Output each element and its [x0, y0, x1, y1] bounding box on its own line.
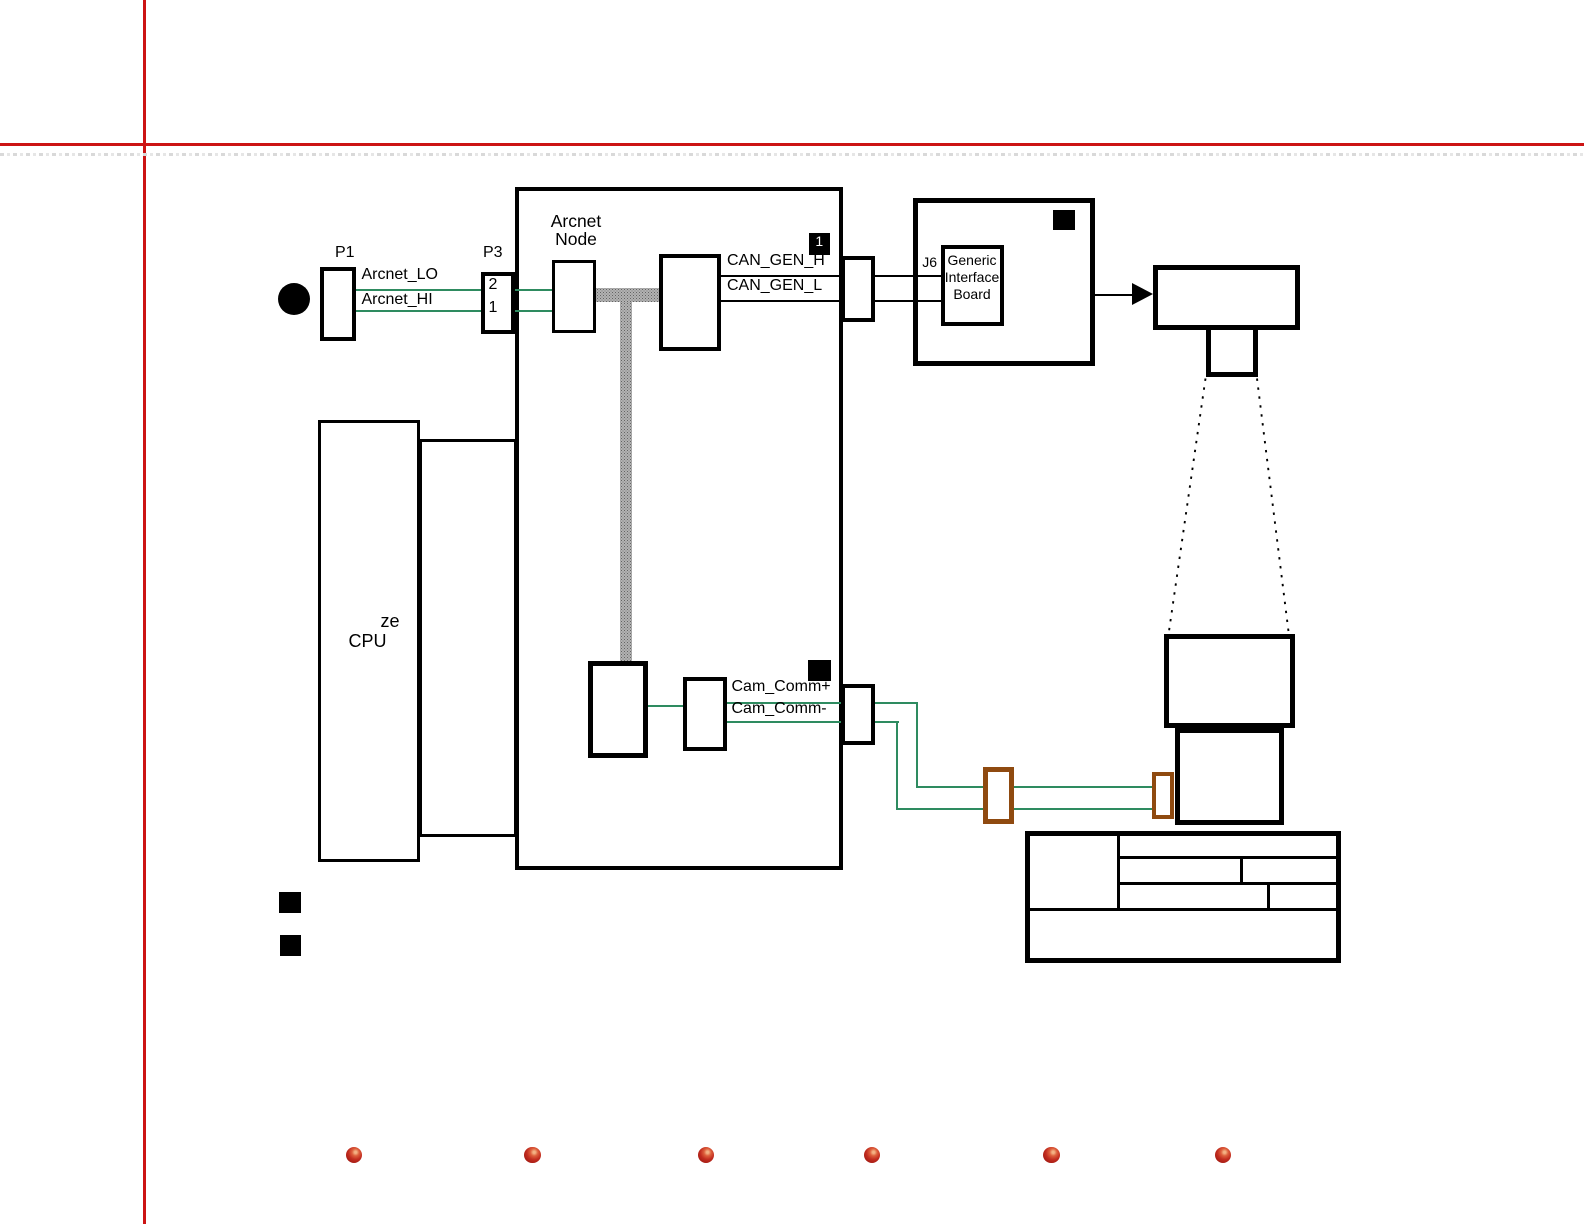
wire CAN to GIB upper — [874, 275, 942, 277]
label Arcnet — [516, 213, 636, 231]
label Cam_Comm- — [732, 701, 827, 717]
label Arcnet_LO — [362, 267, 438, 283]
red ball 3 — [698, 1147, 715, 1164]
wire Cam_Comm- horizontal — [727, 721, 899, 723]
label P3 — [483, 245, 503, 261]
wire Arcnet_LO inside node — [514, 289, 554, 291]
wire GIB to camera — [1094, 294, 1134, 296]
shielded cable vertical — [620, 302, 632, 661]
CAN transceiver block — [659, 254, 721, 351]
label Arcnet_HI — [362, 292, 433, 308]
camera connector B — [1152, 772, 1174, 819]
wire Arcnet_LO P3 to node connector — [514, 289, 552, 291]
red ball 5 — [1043, 1147, 1060, 1164]
wire Arcnet_HI inside node — [514, 310, 554, 312]
title block cell divider row3 — [1267, 882, 1270, 911]
connector P3 — [481, 272, 515, 335]
red ball 1 — [346, 1147, 363, 1164]
cam comm block B — [683, 677, 727, 751]
sheet marker 1 digit — [809, 234, 831, 248]
wire Arcnet_HI P1 to P3 — [355, 310, 481, 312]
title block h line 2 — [1118, 882, 1341, 885]
shielded cable horizontal — [596, 288, 660, 302]
beam left dotted — [1169, 379, 1206, 633]
box Generic Interface Board outer — [913, 198, 1095, 366]
faint perforation row — [0, 153, 1584, 156]
sheet marker 1 — [809, 233, 831, 255]
box Arcnet Node — [515, 187, 843, 870]
arrowhead — [1132, 283, 1153, 305]
arcnet transceiver block — [552, 260, 597, 333]
wire CAN_GEN_L — [721, 300, 941, 302]
beam dotted lines — [1150, 370, 1310, 645]
connector node right bottom — [841, 684, 875, 745]
wire Cam_Comm+ lower run — [916, 786, 1153, 788]
label CAN_GEN_H — [727, 253, 825, 269]
wire Cam_Comm+ horizontal — [727, 702, 918, 704]
label Node — [516, 231, 636, 249]
title block h line 3 — [1025, 908, 1341, 911]
label Generic Interface Board — [941, 252, 1004, 302]
label J6 — [900, 255, 937, 269]
block Generic Interface Board — [941, 245, 1004, 327]
red margin line horizontal — [0, 143, 1584, 146]
label Cam_Comm+ — [732, 679, 831, 695]
camera mount neck — [1206, 330, 1258, 377]
title block h line 1 — [1118, 856, 1341, 859]
red margin line vertical — [143, 0, 146, 1224]
wire Cam_Comm+ vertical — [916, 702, 918, 788]
label ze — [381, 612, 400, 630]
inline splice connector A — [983, 767, 1014, 824]
footprint marker 2 — [280, 935, 301, 956]
wire Cam_Comm- vertical — [896, 721, 898, 810]
camera body — [1153, 265, 1301, 330]
label P1 — [335, 245, 355, 261]
red ball 2 — [524, 1147, 541, 1164]
title block divider vertical main — [1117, 831, 1120, 910]
lens housing — [1164, 634, 1296, 728]
cam comm block A — [588, 661, 648, 758]
label CAN_GEN_L — [727, 278, 822, 294]
wire CAN to GIB lower — [874, 300, 942, 302]
camera lower body — [1175, 728, 1285, 825]
wire CAN_GEN_H — [721, 275, 941, 277]
box CPU — [318, 420, 420, 862]
label CPU — [349, 632, 387, 650]
title block outer — [1025, 831, 1341, 963]
pin 2 — [489, 277, 498, 293]
GIB corner marker — [1053, 210, 1075, 230]
cam marker square — [808, 660, 831, 681]
connector J (node right top) — [841, 256, 875, 322]
wire Arcnet_LO P1 to P3 — [355, 289, 481, 291]
box CPU interconnect — [419, 439, 517, 837]
connector P1 — [320, 267, 356, 341]
wire Cam_Comm- lower run — [896, 808, 1152, 810]
wire Arcnet_HI P3 to node connector — [514, 310, 552, 312]
footprint marker 1 — [279, 892, 301, 913]
pin 1 — [489, 300, 498, 316]
node terminator dot — [278, 283, 310, 315]
red ball 4 — [864, 1147, 881, 1164]
wire cam transceiver link — [648, 705, 684, 707]
red ball 6 — [1215, 1147, 1232, 1164]
beam right dotted — [1257, 379, 1289, 632]
title block cell divider row2 — [1240, 856, 1243, 884]
